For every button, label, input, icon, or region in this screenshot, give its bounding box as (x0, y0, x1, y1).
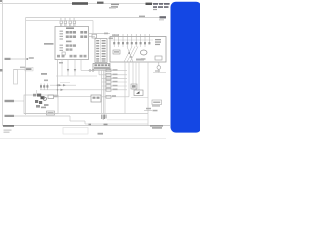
connector J1 vertical strip outline (95, 39, 107, 63)
IC U1 bottom pad row (57, 55, 87, 58)
IC U1 pin wire x=62 (61, 60, 63, 77)
small text above bus right (139, 16, 145, 18)
connector J1 pin cells (96, 40, 105, 62)
wire y=96.7 to filter box (54, 96, 91, 98)
blue cover panel (171, 2, 202, 133)
junction dots in bundle (128, 52, 130, 54)
right block internal top bus (111, 39, 153, 41)
marks under meter (141, 58, 146, 60)
signal wire step down x=70 (69, 116, 71, 121)
wire horizontal y=33.5 to right block (89, 33, 111, 35)
resistor network RN1 pin box 1 (60, 18, 62, 27)
wire bundle diagonals (124, 47, 138, 63)
diode CR7 on wire y=96.8 (106, 95, 111, 98)
diode array symbols row (113, 34, 150, 47)
ladder rung 1 symbol (106, 69, 118, 72)
wire IC right to strip y=36.5 (89, 36, 96, 38)
wire inner left vertical x=25.5 (25, 18, 27, 116)
ladder rung 5 with diode (102, 85, 128, 88)
label text left bottom area (41, 73, 47, 75)
ladder rung 6 with diode (40, 88, 127, 91)
ground bus y=76 under IC (56, 75, 97, 77)
resistor network RN3 pin box 3 (69, 18, 71, 27)
title block faint outline (63, 128, 88, 135)
signal wire step down x=85 (84, 121, 86, 124)
right block pin wire x=136 (135, 62, 137, 90)
border frame bottom horizontal line (3, 125, 171, 127)
IC U1 cell row 3 (66, 44, 76, 46)
ladder rung 4 with diode (102, 81, 128, 84)
right block pin wire x=148 (147, 62, 149, 126)
IC U1 pin wire long x=57 (57, 60, 59, 97)
transistor Q1 box (131, 84, 137, 89)
wire bus upper y=17.5 (26, 17, 167, 19)
right block pin wire x=125 (124, 62, 126, 114)
left wire y=69.5 with resistor R2 (14, 67, 34, 71)
pin label text under IC (59, 62, 63, 64)
signal wire y=121 (70, 120, 85, 122)
signal wire y=124 (85, 123, 148, 125)
note text small x=109 (109, 7, 116, 9)
IC U1 cell row 1 left group (66, 31, 76, 34)
right block pin wire x=129 (128, 62, 130, 97)
transistor Q2 box with symbol (134, 90, 143, 96)
wire stub y=120 (107, 119, 148, 121)
label box right lower (152, 100, 162, 107)
transformer T1 box in cluster (48, 95, 58, 99)
arrow tick on wire y=33.5 (104, 33, 108, 35)
zener diode group left cluster (40, 84, 48, 90)
label text above right block (112, 34, 119, 35)
label CLOCK text on top frame (97, 2, 104, 4)
IC U1 cell row 1 right group (80, 31, 87, 34)
IC U1 part number text (66, 27, 74, 29)
small text under bus right (159, 19, 164, 20)
wire segment y=82.5 (60, 82, 70, 84)
connector J2 pin cells row (94, 64, 109, 66)
revision tick on left frame (0, 69, 3, 72)
meter M1 ellipse (140, 50, 147, 55)
signal label bottom left (5, 115, 15, 117)
label TIMER text top (72, 2, 88, 5)
wire y=85.2 with diodes CR4 CR5 (50, 84, 76, 86)
trim line bottom faint (0, 138, 166, 140)
border frame left vertical line (2, 0, 4, 126)
right block pin wire x=139 (138, 62, 140, 90)
IC U1 pin text column lower (60, 45, 64, 51)
label text top right (146, 3, 153, 5)
note text inside right block (155, 39, 161, 45)
right block K1 outline (110, 37, 166, 63)
sheet number text below frame (98, 133, 104, 135)
power supply PS1 enclosure box (24, 95, 58, 114)
wire vertical x=93 from bus (92, 21, 94, 34)
junction dot wire y85 (57, 84, 59, 86)
ground termination hatch (102, 115, 106, 120)
IC U1 pin wire x=81 to junction (81, 60, 127, 72)
symbols bottom centre of block (136, 59, 144, 61)
connector J2 hatched bottom row (94, 67, 110, 69)
connector J2 lower block outline (93, 64, 110, 71)
vertical link x=57.5 cluster (57, 85, 59, 97)
small box lower right of block (155, 56, 162, 60)
note text block far top right two rows (153, 3, 170, 10)
long bus wire y=113.5 (24, 113, 148, 115)
IC U1 pin wire x=75 with diode CR3 (74, 60, 76, 76)
label text small left bottom (44, 80, 48, 82)
right block pin wire x=133 (132, 62, 134, 90)
note text rows bottom left (4, 130, 12, 133)
connector J2 pin wires down (97, 70, 105, 114)
ladder rung 3 with diode (102, 77, 128, 80)
title block marks above frame (89, 124, 92, 126)
frame line heavy left segment (3, 125, 14, 127)
wire y=72.5 right side (153, 70, 166, 72)
border frame top horizontal line (0, 3, 170, 5)
junction dot wire y89.8 (57, 89, 59, 91)
regulator cluster parts (33, 94, 49, 109)
label text right of strip top (109, 38, 114, 39)
IC U1 cell row 2 right group (80, 35, 87, 38)
shield box tall narrow (14, 70, 18, 85)
indicator lamp DS1 circle (157, 62, 161, 73)
wire bus upper y=20.5 (26, 20, 94, 22)
title block marks right above frame (104, 124, 108, 126)
text label on wire y=96.8 (112, 95, 116, 97)
cluster riser wire (36, 90, 38, 94)
corner registration mark top-left (0, 0, 2, 2)
IC U1 cell row 4 (66, 48, 73, 50)
label with leader bottom left (5, 100, 25, 102)
IC U1 small status box (62, 52, 65, 55)
resistor network RN4 pin box 4 (73, 18, 75, 27)
part number box bottom left (47, 111, 55, 115)
note text block top center-right (111, 4, 119, 8)
capacitor C1 small box between IC and connector (92, 34, 97, 38)
relay box inside right block (113, 50, 120, 54)
IC U1 section text (66, 41, 72, 43)
left label with wire y=59 (5, 57, 34, 60)
note text bottom right row (150, 125, 163, 129)
diode CR6 on rung 6 (61, 89, 64, 91)
wire y=96.8 filter to rung (101, 96, 129, 98)
arrow label lower right (144, 108, 158, 112)
relay box label (114, 51, 119, 52)
long signal wire y=116 (14, 115, 70, 117)
filter FL1 box (91, 95, 101, 102)
dark text on bus at right (160, 16, 167, 18)
ladder rung 2 with diode (99, 73, 127, 76)
resistor network RN2 pin box 2 (64, 18, 66, 27)
IC U1 pin wire x=68 with diode CR2 (67, 60, 69, 76)
IC U1 main block outline (55, 27, 89, 60)
label OSCILLATOR with leader (44, 43, 54, 45)
IC U1 pin text column upper (60, 31, 64, 40)
connector J1 centre divider (100, 39, 102, 63)
IC U1 cell row 2 left group (66, 35, 76, 38)
wire y=97.5 bottom right (131, 97, 148, 99)
